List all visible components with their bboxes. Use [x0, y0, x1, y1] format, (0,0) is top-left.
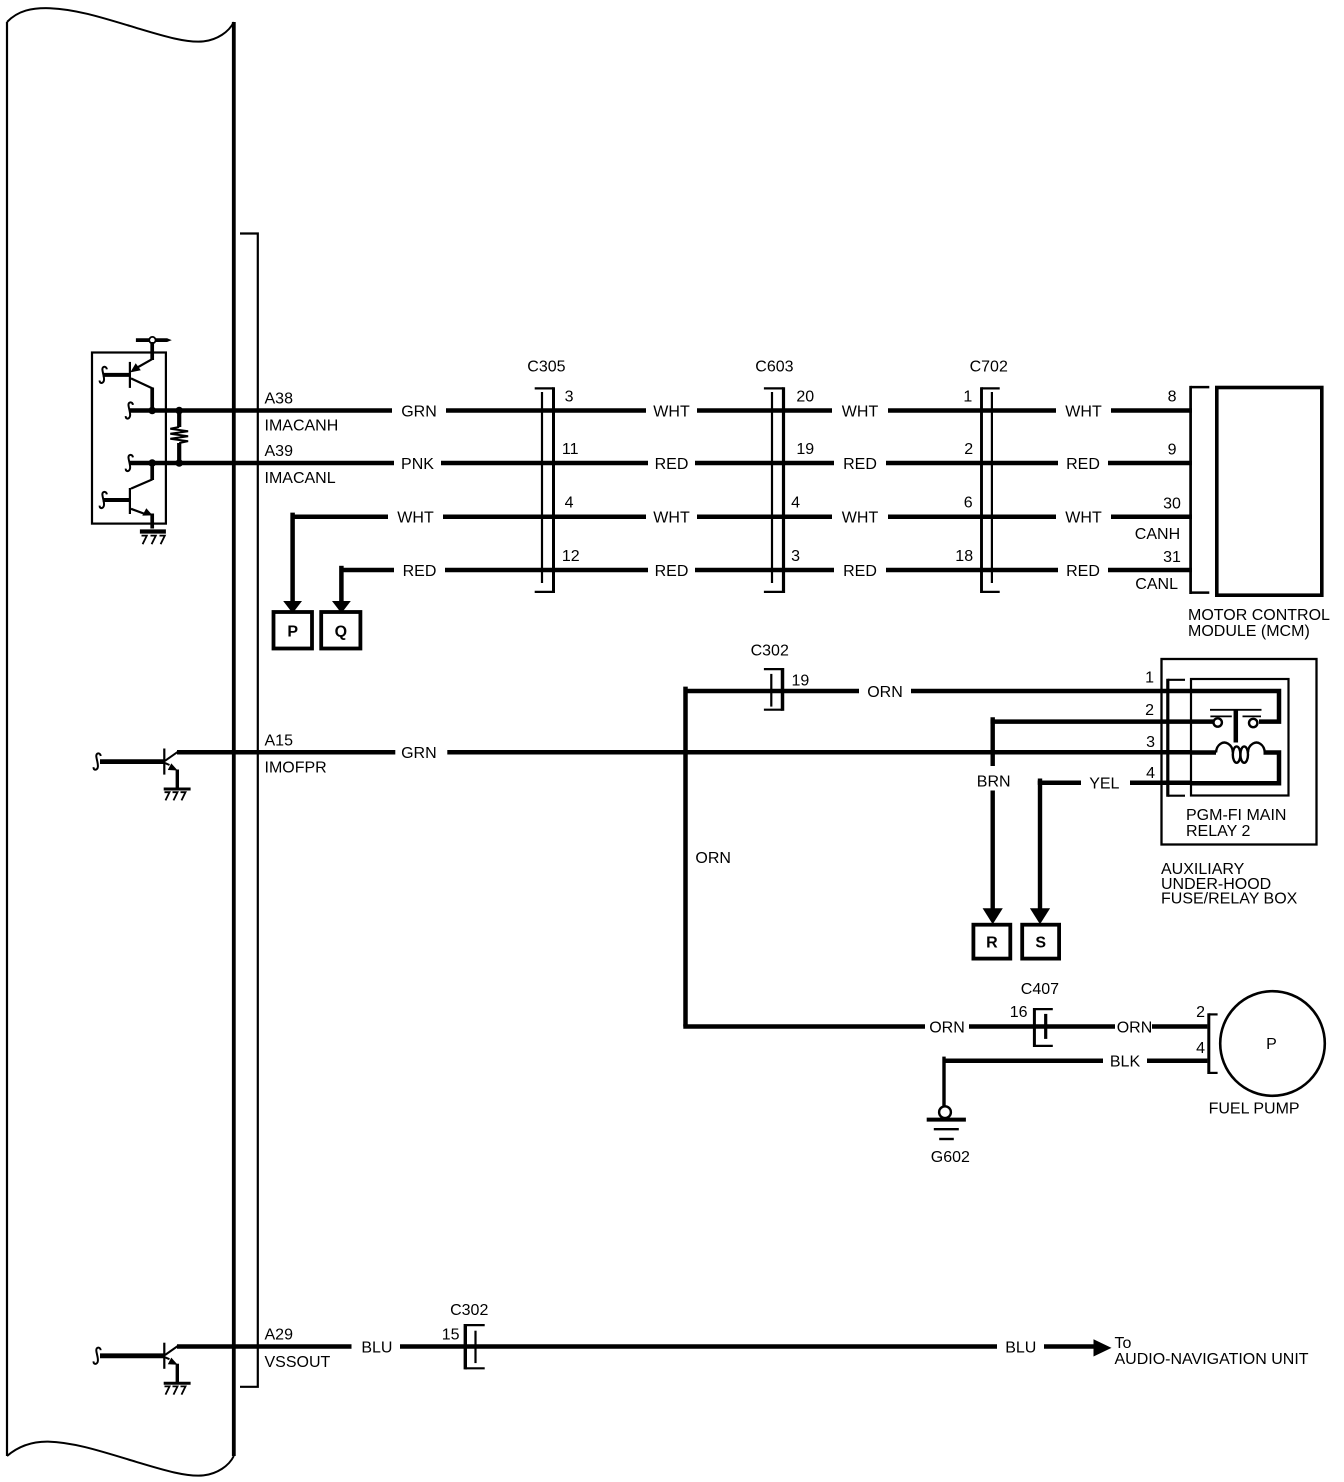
connector C305 with pin numbers 3/11/4/12: [527, 358, 579, 593]
wire color label GRN (A15): [401, 745, 437, 762]
svg-text:RED: RED: [655, 563, 689, 580]
connector C302 pin 19: [751, 643, 810, 711]
wire Q3 base with continuation mark: [94, 753, 164, 769]
box Q: [321, 612, 360, 649]
arrow to audio-navigation unit: [1094, 1335, 1309, 1368]
svg-text:WHT: WHT: [653, 403, 690, 420]
svg-text:GRN: GRN: [401, 745, 437, 762]
svg-text:3: 3: [1146, 734, 1155, 751]
CAN driver block box: [92, 353, 166, 524]
svg-text:4: 4: [565, 495, 574, 512]
wire ORN from C302-19 to relay pin 1: [686, 689, 1193, 694]
auxiliary under-hood fuse/relay box: [1161, 659, 1317, 908]
svg-text:31: 31: [1163, 549, 1181, 566]
svg-text:G602: G602: [931, 1149, 970, 1166]
wire color labels row 2: [401, 456, 1100, 473]
wire color label BLK: [1110, 1054, 1141, 1071]
transistor Q2 (CAN low driver): [103, 464, 153, 529]
wire color label BLU (right): [1005, 1339, 1036, 1356]
svg-text:C407: C407: [1021, 981, 1059, 998]
wire CANH (WHT) shield pair to MCM pin 30: [293, 515, 1192, 520]
svg-text:6: 6: [964, 495, 973, 512]
svg-text:BLU: BLU: [1005, 1339, 1036, 1356]
arrow to Q (RED shield drain): [332, 566, 351, 613]
box P: [274, 612, 313, 649]
svg-text:P: P: [1266, 1036, 1277, 1053]
ground (CAN driver block): [140, 532, 166, 545]
transistor Q3 (IMOFPR driver): [164, 749, 178, 789]
wire ORN vertical branch: [683, 687, 688, 1027]
svg-text:WHT: WHT: [1065, 510, 1102, 527]
svg-text:VSSOUT: VSSOUT: [265, 1354, 331, 1371]
wire Q2 base continuation mark: [100, 492, 107, 508]
svg-text:ORN: ORN: [929, 1019, 965, 1036]
svg-text:C302: C302: [450, 1302, 488, 1319]
wire Q1 base continuation mark: [100, 367, 107, 383]
svg-text:20: 20: [796, 388, 814, 405]
svg-text:PGM-FI MAIN: PGM-FI MAIN: [1186, 807, 1286, 824]
fuel pump connector bracket pins 2/4: [1196, 1004, 1218, 1074]
MCM connector bracket, pins 8/9/30/31, CANH/CANL: [1135, 386, 1210, 594]
connector C407 pin 16: [1010, 981, 1059, 1047]
wire color label BLU (left): [361, 1339, 392, 1356]
svg-text:16: 16: [1010, 1004, 1028, 1021]
svg-text:WHT: WHT: [1065, 403, 1102, 420]
svg-text:4: 4: [791, 495, 800, 512]
fuel pump motor: [1209, 991, 1325, 1117]
module connector strip: [240, 234, 258, 1387]
svg-text:C305: C305: [527, 358, 565, 375]
svg-text:RED: RED: [1066, 563, 1100, 580]
junction dots on IMACANH wire: [148, 407, 183, 415]
box R: [973, 925, 1010, 959]
svg-text:CANL: CANL: [1135, 576, 1178, 593]
svg-text:4: 4: [1146, 765, 1155, 782]
svg-text:RED: RED: [843, 563, 877, 580]
svg-text:ORN: ORN: [695, 850, 731, 867]
svg-text:Q: Q: [335, 623, 347, 640]
svg-text:R: R: [986, 935, 998, 952]
svg-text:RED: RED: [843, 456, 877, 473]
svg-text:C603: C603: [755, 358, 793, 375]
ground (Q3 emitter): [164, 789, 191, 800]
connector C603 with pin numbers 20/19/4/3: [755, 358, 814, 593]
svg-text:GRN: GRN: [401, 403, 437, 420]
junction dots on IMACANL wire: [148, 459, 183, 467]
wire BLK fuel pump ground: [944, 1057, 1207, 1106]
transistor Q4 (VSSOUT driver): [164, 1343, 178, 1383]
svg-text:4: 4: [1196, 1040, 1205, 1057]
svg-text:3: 3: [565, 388, 574, 405]
svg-text:18: 18: [955, 548, 973, 565]
svg-text:15: 15: [442, 1327, 460, 1344]
svg-text:19: 19: [796, 441, 814, 458]
wire color labels row 4: [403, 563, 1100, 580]
svg-text:RED: RED: [655, 456, 689, 473]
wire BRN from relay pin 2: [983, 717, 1192, 924]
svg-text:9: 9: [1168, 442, 1177, 459]
ground G602: [927, 1106, 970, 1166]
svg-text:1: 1: [1145, 669, 1154, 686]
connector C302 pin 15: [442, 1302, 489, 1369]
svg-text:PNK: PNK: [401, 456, 434, 473]
svg-text:2: 2: [1196, 1004, 1205, 1021]
svg-text:FUEL PUMP: FUEL PUMP: [1209, 1101, 1300, 1118]
relay coil (pins 3-4): [1192, 710, 1279, 783]
wire Q4 base with continuation mark: [94, 1348, 164, 1364]
svg-text:AUDIO-NAVIGATION UNIT: AUDIO-NAVIGATION UNIT: [1115, 1351, 1309, 1368]
svg-text:WHT: WHT: [397, 510, 434, 527]
svg-text:RED: RED: [1066, 456, 1100, 473]
box S: [1022, 925, 1059, 959]
svg-text:FUSE/RELAY BOX: FUSE/RELAY BOX: [1161, 891, 1298, 908]
wire color label BRN: [977, 774, 1011, 791]
svg-text:19: 19: [792, 673, 810, 690]
svg-text:RED: RED: [403, 563, 437, 580]
wire color label YEL: [1089, 776, 1119, 793]
connector C702 with pin numbers 1/2/6/18: [955, 358, 1008, 593]
wire color label ORN (vertical): [695, 850, 731, 867]
wire A38 IMACANH (GRN/WHT) to MCM pin 8: [126, 402, 1192, 418]
pin A29 label: [265, 1327, 331, 1371]
svg-text:A38: A38: [265, 391, 294, 408]
relay connector bracket pins 1-4: [1145, 669, 1185, 796]
motor control module (MCM) box: [1188, 388, 1330, 641]
arrow to P (WHT shield drain): [283, 513, 302, 614]
wire CANL (RED) shield pair to MCM pin 31: [341, 568, 1192, 573]
svg-text:IMACANL: IMACANL: [265, 470, 336, 487]
svg-text:BLK: BLK: [1110, 1054, 1141, 1071]
svg-text:WHT: WHT: [653, 510, 690, 527]
svg-text:1: 1: [963, 388, 972, 405]
svg-text:8: 8: [1168, 388, 1177, 405]
ground (Q4 emitter): [164, 1383, 191, 1394]
svg-text:To: To: [1115, 1335, 1132, 1352]
wire A39 IMACANL (PNK/RED) to MCM pin 9: [126, 455, 1192, 471]
svg-text:WHT: WHT: [842, 510, 879, 527]
pin A39 label: [265, 443, 336, 487]
svg-text:ORN: ORN: [1117, 1019, 1153, 1036]
svg-text:RELAY 2: RELAY 2: [1186, 823, 1250, 840]
wire YEL from relay pin 4: [1030, 779, 1192, 925]
pin A38 label: [265, 391, 339, 435]
svg-text:P: P: [287, 623, 298, 640]
wire color label ORN (relay pin1): [867, 684, 903, 701]
wire color labels row 1: [401, 403, 1102, 420]
transistor Q1 (CAN high driver): [103, 359, 153, 408]
relay contact (pins 1-2): [1192, 691, 1279, 727]
svg-text:MOTOR CONTROL: MOTOR CONTROL: [1188, 607, 1330, 624]
PGM-FI main relay 2 box: [1186, 679, 1289, 840]
resistor (CAN termination): [170, 412, 188, 461]
svg-text:WHT: WHT: [842, 403, 879, 420]
svg-text:IMACANH: IMACANH: [265, 418, 339, 435]
wire color label ORN (after C407): [1117, 1019, 1153, 1036]
svg-text:30: 30: [1163, 496, 1181, 513]
svg-text:A15: A15: [265, 732, 294, 749]
power node: [136, 337, 172, 360]
svg-text:BRN: BRN: [977, 774, 1011, 791]
svg-text:C302: C302: [751, 643, 789, 660]
svg-text:MODULE (MCM): MODULE (MCM): [1188, 623, 1310, 640]
svg-text:3: 3: [791, 548, 800, 565]
pin A15 label: [265, 732, 327, 776]
module MCM/BCM outline (torn edges): [7, 8, 234, 1476]
svg-text:C702: C702: [970, 358, 1008, 375]
svg-text:11: 11: [562, 441, 579, 458]
svg-text:2: 2: [1145, 702, 1154, 719]
svg-text:2: 2: [964, 441, 973, 458]
wire A15 IMOFPR (GRN) to relay pin 3: [177, 750, 1192, 755]
svg-text:YEL: YEL: [1089, 776, 1119, 793]
svg-text:BLU: BLU: [361, 1339, 392, 1356]
wire color label ORN (before C407): [929, 1019, 965, 1036]
svg-text:ORN: ORN: [867, 684, 903, 701]
svg-text:CANH: CANH: [1135, 526, 1180, 543]
wire ORN bottom run to C407: [683, 1024, 1207, 1029]
wire A29 VSSOUT (BLU) to audio-navigation unit: [177, 1344, 1096, 1349]
svg-text:IMOFPR: IMOFPR: [265, 760, 327, 777]
svg-text:S: S: [1035, 935, 1046, 952]
svg-text:A39: A39: [265, 443, 294, 460]
wire color labels row 3: [397, 510, 1102, 527]
svg-text:12: 12: [562, 548, 580, 565]
svg-text:A29: A29: [265, 1327, 294, 1344]
